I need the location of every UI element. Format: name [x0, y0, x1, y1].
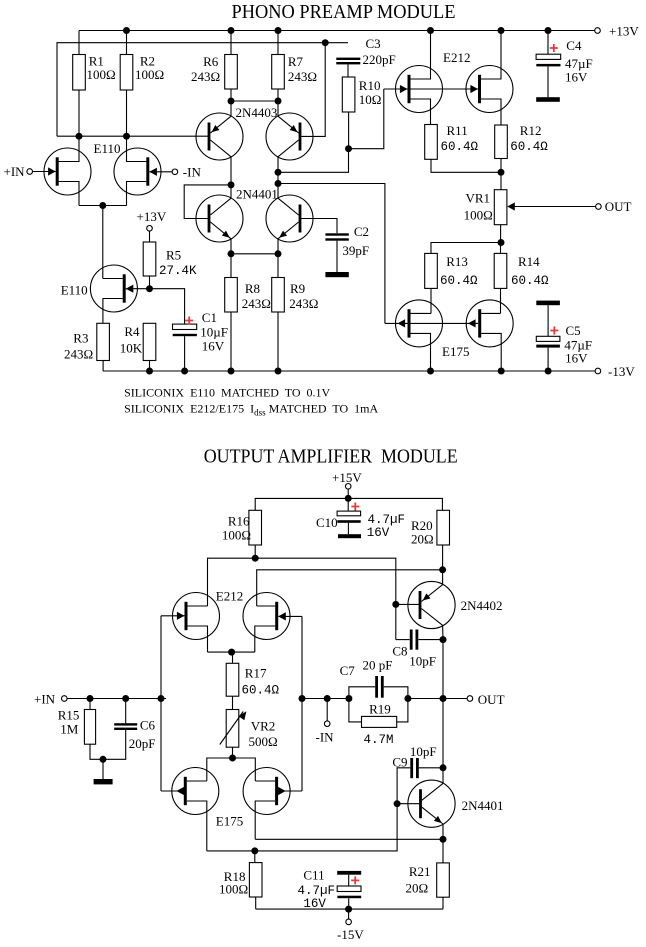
wire: E175 shared gate line	[385, 322, 478, 324]
jfet E110 upper-left source	[59, 182, 79, 206]
svg-text:C10: C10	[316, 515, 338, 530]
node: -IN stub	[324, 695, 331, 702]
wire: +13V top bus	[79, 30, 595, 32]
svg-text:SILICONIX E110 MATCHED TO: SILICONIX E110 MATCHED TO 0.1V	[124, 386, 330, 400]
transistor 2N4403 right emitter	[278, 116, 299, 133]
wire: R9 bottom stub	[277, 312, 279, 371]
VR2 adjustment arrow	[220, 712, 243, 745]
wire: R7 top stub	[277, 31, 279, 55]
node: R1 bottom / E110 left drain	[76, 133, 83, 140]
transistor 2N4403 left base bar	[208, 123, 211, 151]
wire: R6-R7 bottoms link	[231, 100, 278, 102]
terminal OUT (phono)	[596, 204, 602, 210]
wire: R4 bottom stub	[149, 361, 151, 372]
transistor 2N4403 left emitter arrow	[212, 125, 220, 132]
svg-text:1M: 1M	[60, 722, 79, 737]
C4 polarity mark	[550, 44, 558, 52]
jfet E212 lower-left drain	[188, 605, 208, 607]
node: feedback left	[345, 695, 352, 702]
jfet E110 upper-right (circle)	[114, 148, 161, 195]
wire: R6 top stub	[230, 31, 232, 55]
jfet E110 cascode gate wire	[126, 288, 150, 290]
svg-text:2N4401: 2N4401	[462, 798, 504, 813]
svg-text:500Ω: 500Ω	[249, 734, 278, 749]
svg-text:16V: 16V	[303, 897, 326, 911]
wire: collector tap to E175 gate column	[278, 184, 385, 324]
node: R5/R4/gate junction	[146, 285, 153, 292]
jfet E110 cascode gate arrow	[126, 285, 134, 293]
svg-text:16V: 16V	[565, 70, 588, 85]
transistor 2N4403 right (circle)	[266, 113, 313, 160]
wire: E212 sources join	[208, 651, 255, 653]
wire: gate node to C1	[150, 289, 185, 325]
jfet E212 lower-left channel bar	[185, 602, 188, 630]
transistor 2N4401 right emitter	[278, 222, 299, 239]
jfet E175 lower-right gate wire	[277, 790, 302, 792]
svg-text:20Ω: 20Ω	[411, 532, 434, 547]
jfet E110 upper-left channel bar	[56, 157, 59, 185]
svg-text:20Ω: 20Ω	[406, 881, 429, 896]
svg-text:R6: R6	[203, 54, 219, 69]
jfet E175 upper-right channel bar	[478, 309, 481, 337]
svg-text:R5: R5	[166, 248, 181, 263]
capacitor C11 (electrolytic)	[337, 871, 361, 875]
svg-text:60.4Ω: 60.4Ω	[441, 140, 479, 154]
jfet E175 lower-right drain	[255, 780, 275, 782]
wire: 2N4401 left base elbow	[184, 185, 231, 219]
jfet E110 cascode drain	[103, 278, 123, 280]
resistor R19 (feedback)	[349, 699, 362, 722]
svg-text:10K: 10K	[120, 341, 143, 356]
svg-text:R16: R16	[228, 514, 250, 529]
wire: -15V terminal stub	[348, 909, 350, 919]
jfet E212 lower-right gate wire	[278, 615, 302, 617]
jfet E175 lower-right gate arrow	[278, 787, 286, 795]
wire: 2N4402 collector drop	[442, 625, 444, 698]
transistor 2N4401 output collector	[422, 783, 443, 800]
resistor R11	[425, 125, 438, 160]
transistor 2N4401 right base bar	[299, 205, 302, 233]
wire: E175R source to 2N4401 emitter	[255, 838, 443, 840]
resistor R7	[272, 55, 285, 90]
node: C1 on -13V bus	[181, 368, 188, 375]
svg-text:-IN: -IN	[316, 730, 335, 745]
jfet E175 upper-left source	[411, 333, 431, 371]
svg-text:60.4Ω: 60.4Ω	[510, 140, 548, 154]
wire: E110 sources join	[79, 205, 127, 207]
transistor 2N4401 left collector	[210, 198, 231, 215]
jfet E212 upper-left (circle)	[396, 66, 443, 113]
wire: VR2 to E175 drains	[207, 758, 256, 781]
wire: R8 bottom stub	[230, 312, 232, 371]
transistor 2N4402 emitter arrow	[423, 593, 431, 600]
transistor 2N4401 output emitter	[422, 807, 443, 824]
wire: E212 shared gate line	[384, 88, 478, 90]
svg-text:C1: C1	[202, 310, 217, 325]
transistor 2N4401 right emitter arrow	[279, 231, 287, 238]
svg-text:10µF: 10µF	[200, 325, 228, 340]
svg-text:E212: E212	[216, 589, 243, 604]
svg-text:-IN: -IN	[183, 165, 202, 180]
node: C6 top	[122, 695, 129, 702]
svg-text:+IN: +IN	[34, 692, 56, 707]
wire: R5 bottom stub	[149, 276, 151, 289]
svg-text:C8: C8	[392, 644, 407, 659]
transistor 2N4403 left (circle)	[196, 113, 243, 160]
node: C5 on -13V bus	[545, 368, 552, 375]
wire: collector column to 2N4401	[442, 699, 444, 784]
resistor R1	[73, 55, 86, 91]
svg-text:100Ω: 100Ω	[222, 528, 251, 543]
wire: VR2 bottom stub	[232, 747, 234, 758]
wire: inverting gates column (E212R/E175R gates)	[301, 616, 303, 791]
svg-text:-13V: -13V	[608, 364, 635, 379]
wire: R3 bottom stub	[102, 361, 104, 372]
jfet E110 upper-left gate wire	[33, 171, 56, 173]
node: 2N4401 left base tap	[228, 181, 235, 188]
node: R10 bottom / gate tap	[345, 145, 352, 152]
resistor R5	[143, 242, 156, 276]
resistor R6	[225, 55, 238, 90]
terminal -IN (phono)	[172, 169, 178, 175]
wire: R14 top stub	[500, 243, 502, 254]
wire: E175 sources / R18 / base rail	[207, 804, 397, 851]
C11 polarity mark	[351, 876, 359, 884]
wire: emitter stubs to R8 R9	[231, 254, 278, 278]
svg-text:R17: R17	[245, 666, 267, 681]
transistor 2N4401 output base bar	[419, 789, 422, 818]
jfet E175 upper-right (circle)	[466, 300, 513, 347]
jfet E212 lower-left source	[188, 626, 208, 652]
node: C9 to collector	[440, 764, 447, 771]
svg-text:60.4Ω: 60.4Ω	[511, 274, 549, 288]
jfet E212 upper-right channel bar	[478, 75, 481, 103]
transistor 2N4401 output (circle)	[408, 780, 455, 827]
node: +IN to gates column	[158, 695, 165, 702]
svg-text:E110: E110	[94, 141, 121, 156]
wire: R2 top stub	[126, 31, 128, 55]
transistor 2N4401 right (circle)	[266, 195, 313, 242]
jfet E175 upper-left gate arrow	[398, 319, 406, 327]
svg-text:C4: C4	[566, 38, 582, 53]
wire: 2N4403 right base to second bus	[301, 43, 325, 137]
svg-text:R12: R12	[520, 123, 542, 138]
svg-text:243Ω: 243Ω	[64, 347, 93, 362]
resistor R20	[437, 510, 450, 545]
wire: R16 bottom stub	[254, 545, 256, 558]
jfet E212 upper-left source	[411, 99, 431, 125]
transistor 2N4401 output base wire	[397, 803, 419, 805]
jfet E212 upper-right gate arrow	[470, 85, 478, 93]
wire: +IN row	[67, 698, 166, 700]
transistor 2N4403 left emitter	[210, 116, 231, 133]
capacitor C2	[325, 233, 348, 235]
wire: C6 bottom stub	[103, 730, 126, 759]
wire: R21 bottom stub	[442, 897, 444, 909]
svg-text:2N4403: 2N4403	[236, 105, 278, 120]
node: feedback right	[404, 695, 411, 702]
VR1 wiper wire	[509, 206, 596, 208]
svg-text:OUT: OUT	[478, 692, 505, 707]
wire: 2N4403 right collector drop	[277, 157, 279, 198]
jfet E175 lower-right channel bar	[275, 777, 278, 805]
svg-text:20pF: 20pF	[129, 736, 156, 751]
svg-text:E175: E175	[442, 344, 469, 359]
node: emitter junction	[440, 836, 447, 843]
transistor 2N4403 left collector	[210, 140, 231, 157]
terminal +13V	[595, 28, 601, 34]
node: R2 top junction	[123, 27, 130, 34]
svg-text:27.4K: 27.4K	[159, 264, 197, 278]
capacitor C7 (feedback)	[349, 687, 375, 699]
svg-text:R7: R7	[288, 54, 304, 69]
potentiometer VR2	[226, 710, 239, 748]
resistor R2	[120, 55, 133, 91]
VR1 wiper arrow	[507, 202, 515, 210]
node: R9 on -13V bus	[275, 368, 282, 375]
node: E212 sources junction	[228, 649, 235, 656]
svg-text:20 pF: 20 pF	[363, 658, 393, 673]
jfet E212 lower-right (circle)	[243, 593, 290, 640]
node: right emitter junction	[275, 250, 282, 257]
wire: R17 top stub	[232, 652, 234, 663]
node: VR2 bottom junction	[229, 755, 236, 762]
wire: 2N4401 right base to C2	[301, 219, 337, 234]
node: R16 bottom junction	[252, 555, 259, 562]
svg-text:SILICONIX E212/E175 Idss MAT: SILICONIX E212/E175 Idss MATCHED TO 1mA	[124, 402, 378, 418]
jfet E212 lower-left (circle)	[173, 593, 220, 640]
wire: sources to cascode drain	[102, 206, 104, 279]
node: ground junction	[100, 756, 107, 763]
resistor R17	[226, 663, 239, 696]
transistor 2N4401 left (circle)	[196, 195, 243, 242]
node: -15V junction	[345, 906, 352, 913]
jfet E212 lower-right drain	[257, 605, 276, 607]
resistor R10	[342, 77, 355, 112]
wire: C3 to R10	[347, 64, 349, 77]
svg-text:E175: E175	[216, 814, 243, 829]
transistor 2N4402 (circle)	[408, 581, 455, 628]
svg-text:C2: C2	[354, 224, 369, 239]
jfet E110 upper-right drain	[127, 136, 147, 161]
jfet E175 upper-right source	[481, 333, 501, 371]
resistor R21	[442, 839, 444, 863]
svg-text:243Ω: 243Ω	[191, 69, 220, 84]
wire: 2N4403 left collector drop	[230, 157, 232, 198]
jfet E212 upper-left channel bar	[408, 75, 411, 103]
transistor 2N4403 right emitter arrow	[290, 125, 298, 132]
svg-text:R10: R10	[359, 78, 381, 93]
wire: R1 top stub	[78, 31, 80, 55]
transistor 2N4402 collector	[421, 609, 442, 626]
wire: input gates column (+IN to E212L/E175L gates)	[160, 616, 162, 791]
transistor 2N4401 output emitter arrow	[434, 816, 442, 823]
jfet E110 upper-left (circle)	[44, 148, 91, 195]
transistor 2N4401 right collector	[278, 198, 299, 215]
jfet E175 lower-right source	[255, 801, 275, 839]
node: E175 left source on -13V bus	[427, 368, 434, 375]
resistor R14	[494, 253, 507, 288]
jfet E212 lower-right gate arrow	[278, 612, 286, 620]
svg-text:39pF: 39pF	[342, 243, 369, 258]
transistor 2N4401 left emitter arrow	[222, 231, 230, 238]
svg-text:243Ω: 243Ω	[288, 69, 317, 84]
node: E212 left drain junction	[427, 27, 434, 34]
terminal +15V	[345, 484, 351, 490]
wire: R6 bottom stub	[230, 89, 232, 116]
node: inverting column crossing	[299, 695, 306, 702]
wire: R12 bottom stub	[500, 159, 502, 173]
svg-text:4.7M: 4.7M	[364, 733, 394, 747]
jfet E175 lower-left channel bar	[184, 777, 187, 805]
jfet E175 upper-left drain	[411, 312, 432, 314]
capacitor C9 (Miller)	[397, 768, 410, 804]
wire: R18 bottom stub	[255, 897, 257, 909]
jfet E110 upper-right channel bar	[146, 157, 149, 185]
wire: R10 bottom stub	[348, 112, 350, 149]
C10 polarity mark	[351, 503, 359, 511]
terminal +IN (output module)	[62, 696, 68, 702]
node: left emitter junction	[228, 250, 235, 257]
node: R2 bottom / E110 right drain	[123, 133, 130, 140]
svg-text:C7: C7	[340, 663, 356, 678]
svg-text:C6: C6	[140, 718, 156, 733]
jfet E110 upper-right gate wire	[149, 171, 172, 173]
node: collector to E175 gate tap	[275, 180, 282, 187]
node: 2N4402 base tap	[392, 601, 399, 608]
svg-text:R21: R21	[409, 864, 431, 879]
node: E110 sources junction	[99, 202, 106, 209]
node: base/C9 junction	[394, 800, 401, 807]
node: E212 right drain junction	[498, 27, 505, 34]
capacitor C4 (electrolytic)	[547, 31, 549, 55]
svg-text:100Ω: 100Ω	[87, 67, 116, 82]
jfet E175 lower-left source	[187, 801, 207, 851]
wire: +15V stub	[347, 489, 349, 511]
svg-text:4.7µF: 4.7µF	[298, 884, 336, 898]
potentiometer VR1	[500, 172, 502, 189]
jfet E212 upper-left gate arrow	[400, 85, 408, 93]
terminal -15V	[346, 919, 352, 925]
svg-text:R4: R4	[124, 324, 140, 339]
svg-text:60.4Ω: 60.4Ω	[242, 684, 280, 698]
resistor R8	[225, 278, 238, 313]
resistor R12	[495, 125, 508, 159]
wire: E212R drain / R20 / 2N4402 emitter rail	[257, 570, 443, 606]
wire: R15 bottom stub	[90, 744, 103, 759]
node: second bus to 2N4403 base column	[322, 39, 329, 46]
wire: R13 bottom stub	[430, 288, 432, 313]
svg-text:-15V: -15V	[337, 927, 364, 942]
C2 ground bar	[325, 272, 348, 277]
svg-text:220pF: 220pF	[363, 52, 396, 67]
transistor 2N4402 base wire	[396, 603, 419, 605]
jfet E110 cascode source	[103, 299, 123, 324]
svg-text:VR2: VR2	[251, 719, 276, 734]
svg-text:OUT: OUT	[605, 199, 632, 214]
jfet E212 lower-left gate wire	[161, 615, 185, 617]
jfet E175 upper-right gate arrow	[468, 319, 476, 327]
node: collector to R10 tap	[275, 169, 282, 176]
wire: R13 top link	[431, 243, 501, 254]
terminal +13V (bias)	[147, 226, 153, 232]
jfet E175 lower-left gate wire	[161, 790, 185, 792]
svg-text:2N4402: 2N4402	[461, 598, 503, 613]
jfet E212 upper-right drain	[481, 31, 501, 80]
capacitor C3	[336, 58, 360, 60]
svg-text:C3: C3	[366, 36, 381, 51]
svg-text:60.4Ω: 60.4Ω	[440, 274, 478, 288]
svg-text:16V: 16V	[565, 351, 588, 366]
node: VR1 bottom junction	[498, 239, 505, 246]
node: R15 top	[87, 695, 94, 702]
transistor 2N4401 left emitter	[210, 222, 231, 239]
jfet E212 lower-left gate arrow	[177, 612, 185, 620]
wire: ground stub	[102, 759, 104, 779]
node: R4 on -13V bus	[146, 368, 153, 375]
svg-text:10Ω: 10Ω	[359, 92, 382, 107]
jfet E110 cascode (circle)	[90, 265, 137, 312]
wire: collector tap to R10 bottom	[278, 149, 349, 173]
svg-text:R15: R15	[58, 708, 80, 723]
svg-text:16V: 16V	[367, 526, 390, 540]
C1 polarity mark	[185, 317, 193, 325]
svg-text:E212: E212	[443, 50, 470, 65]
jfet E212 upper-left drain	[411, 31, 431, 80]
resistor R15	[89, 699, 91, 710]
svg-text:10pF: 10pF	[410, 744, 437, 759]
svg-text:+13V: +13V	[609, 24, 639, 39]
node: collector column on OUT row	[440, 695, 447, 702]
svg-text:2N4401: 2N4401	[236, 187, 278, 202]
wire: R7 bottom stub	[277, 89, 279, 116]
resistor R4	[143, 323, 156, 360]
wire: R11 bottom to R12 bottom	[431, 159, 501, 172]
svg-text:C5: C5	[566, 323, 581, 338]
capacitor C10 (electrolytic)	[337, 511, 361, 516]
resistor R16	[249, 510, 262, 545]
resistor R9	[272, 278, 285, 313]
terminal +IN (phono)	[27, 169, 33, 175]
node: R18 top junction	[251, 847, 258, 854]
svg-text:16V: 16V	[202, 339, 225, 354]
jfet E110 upper-left drain	[59, 136, 79, 161]
terminal -13V	[595, 368, 601, 374]
jfet E212 upper-right (circle)	[466, 66, 513, 113]
jfet E175 lower-right (circle)	[243, 768, 290, 815]
wire: C2 bottom stub	[336, 241, 338, 272]
node: E175 right source on -13V bus	[498, 368, 505, 375]
jfet E175 lower-left gate arrow	[176, 787, 184, 795]
C10 ground bar	[338, 534, 361, 538]
wire: -IN stub	[326, 699, 328, 721]
svg-text:+IN: +IN	[4, 164, 26, 179]
transistor 2N4403 right collector	[278, 140, 299, 157]
wire: E212L drain / R16 / 2N4402 base rail	[208, 558, 396, 639]
node: R6 top junction	[228, 27, 235, 34]
svg-text:+13V: +13V	[137, 209, 167, 224]
transistor 2N4402 emitter	[421, 585, 442, 602]
resistor R18	[254, 851, 256, 863]
svg-text:4.7µF: 4.7µF	[368, 513, 406, 527]
node: R6 bottom	[228, 98, 235, 105]
terminal -IN (output module)	[324, 721, 330, 727]
wire: R5 top stub	[149, 231, 151, 242]
svg-text:R11: R11	[447, 123, 468, 138]
svg-text:10pF: 10pF	[409, 654, 436, 669]
terminal OUT (output module)	[467, 696, 473, 702]
jfet E175 lower-left drain	[187, 780, 207, 782]
